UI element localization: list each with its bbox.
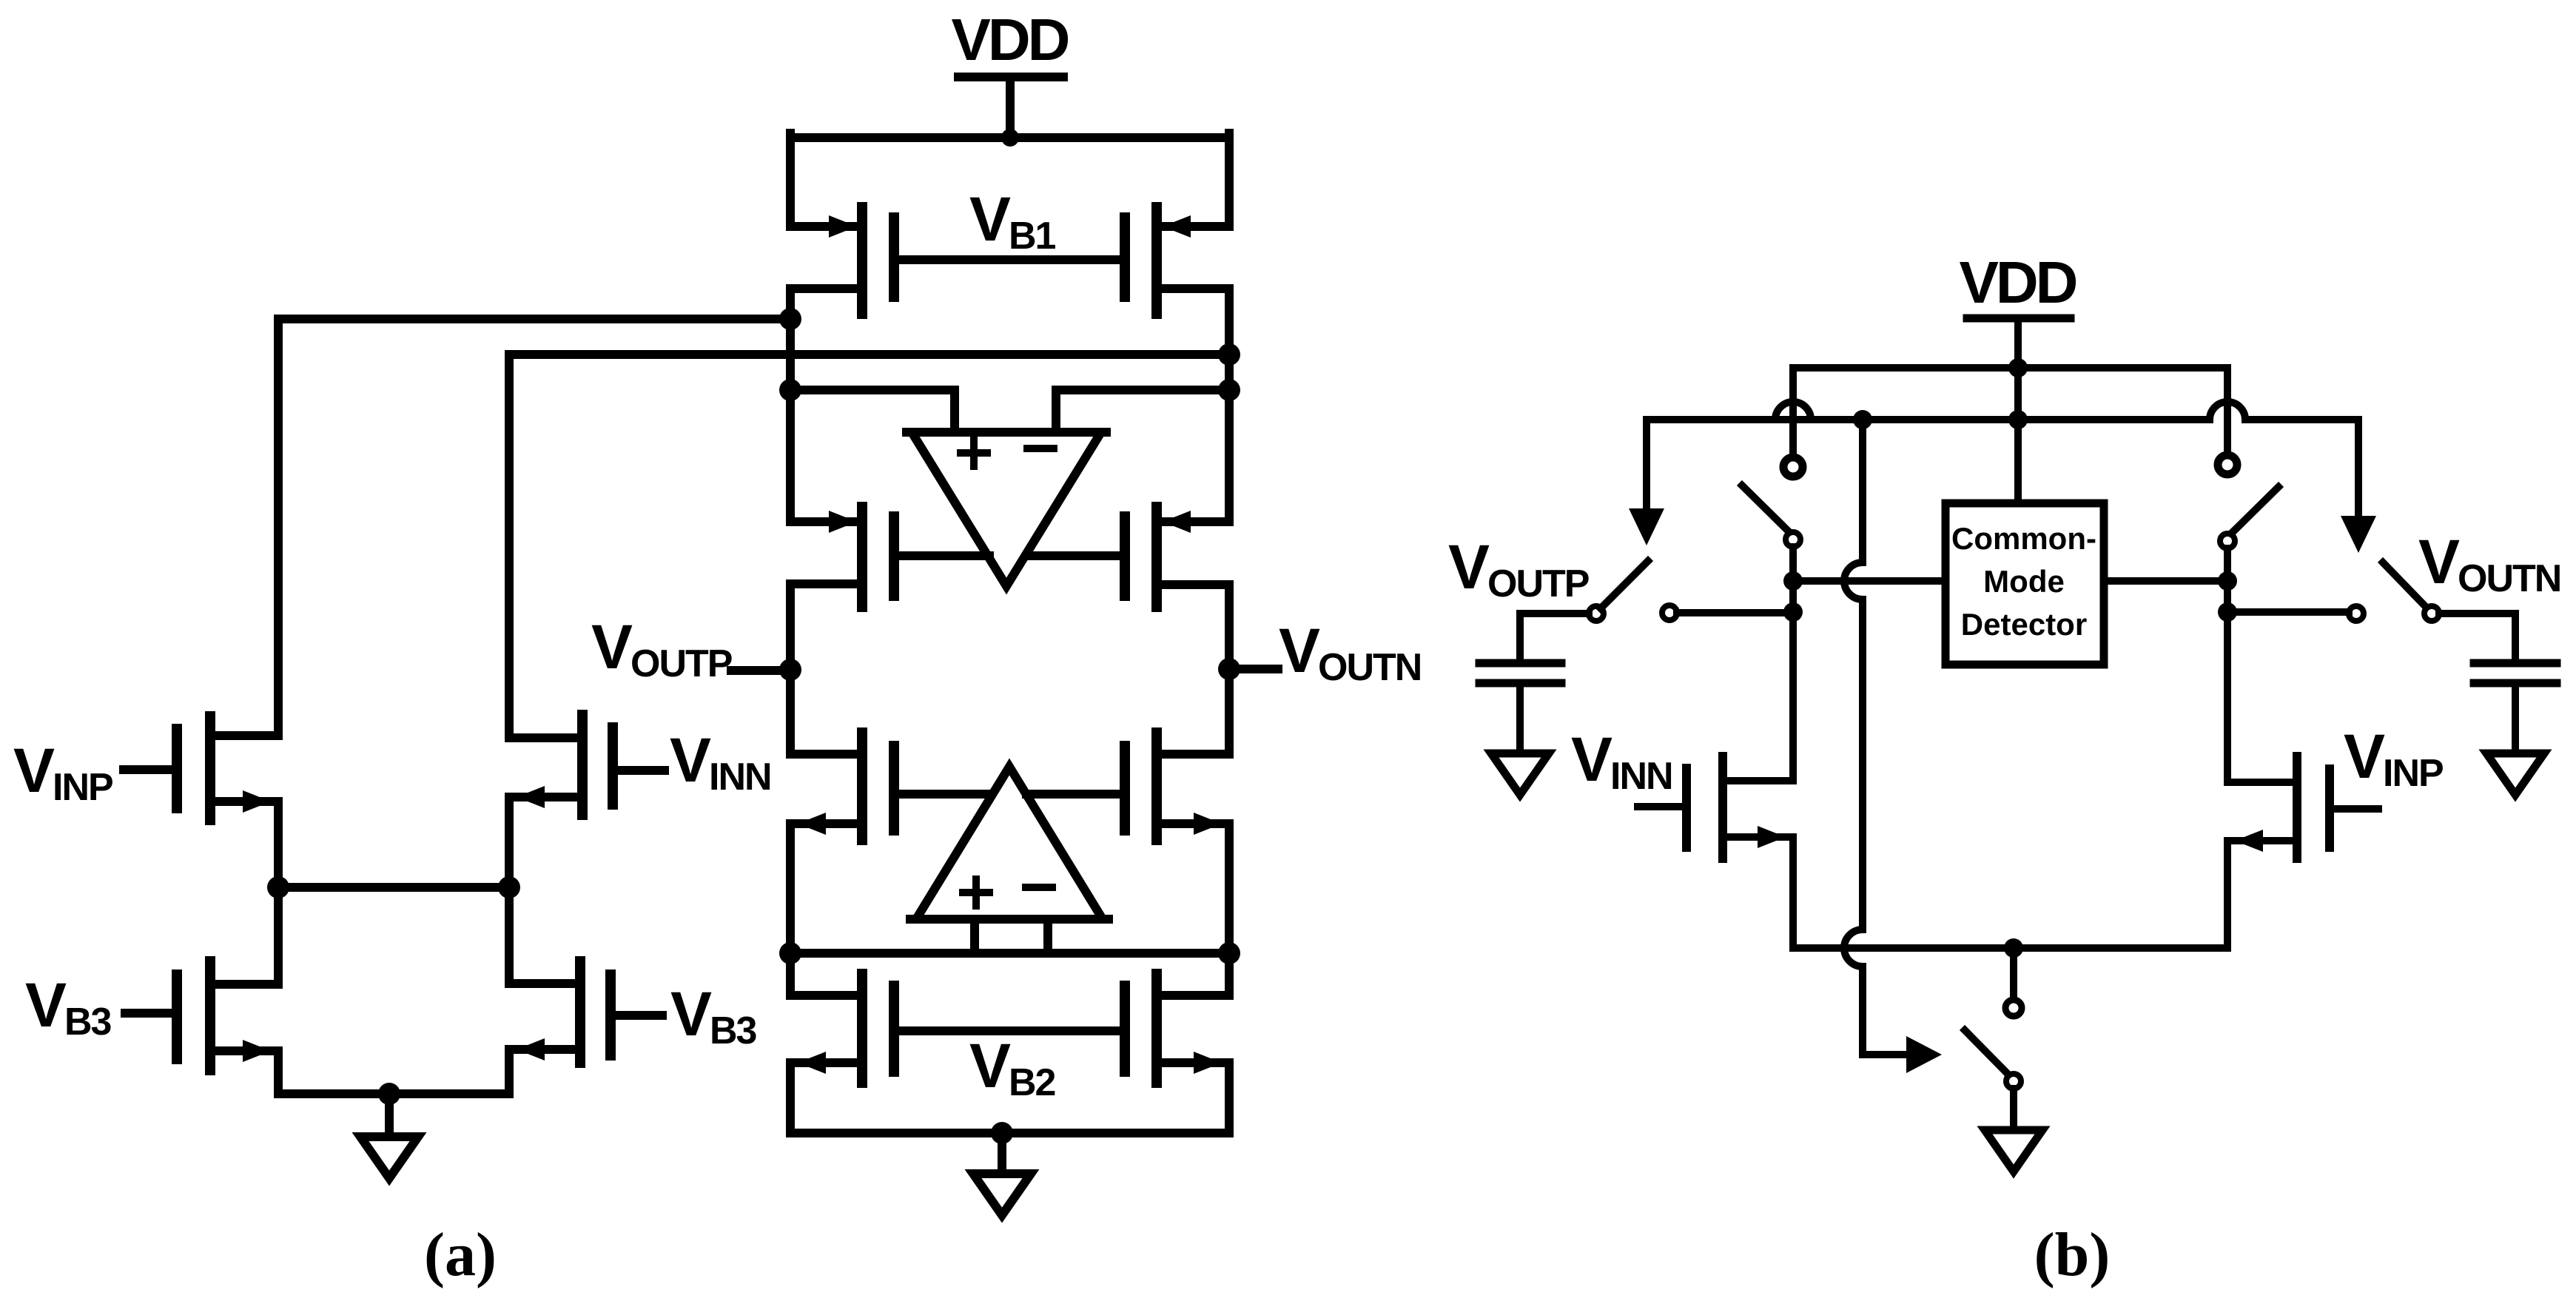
- transistor Q2 VINP channel bar: [2293, 756, 2301, 858]
- crossover hump at left drop: [1775, 402, 1811, 420]
- node dot op-amp input left: [779, 379, 801, 401]
- node VDD junction dot (a): [1001, 129, 1019, 147]
- wire ground stub input pair: [385, 1094, 394, 1137]
- wire M4 gate lead: [1028, 551, 1120, 560]
- block CMD text: [1951, 521, 2096, 642]
- transistor M11 VB3 gate bar: [172, 975, 182, 1059]
- figure label (a): [424, 1220, 497, 1289]
- switch S5 blade: [1965, 1030, 2009, 1075]
- transistor M5 channel bar: [857, 733, 867, 840]
- svg-text:V: V: [670, 979, 712, 1049]
- svg-text:B1: B1: [1009, 215, 1056, 258]
- wire Q2 gate lead: [2334, 805, 2378, 813]
- node tail dot right: [498, 876, 520, 898]
- wire feedback row 1: [278, 315, 790, 323]
- transistor M3 source arm with arrow: [790, 511, 857, 533]
- capacitor C1 plates: [1479, 663, 1561, 683]
- switch S2 pivot contact: [2220, 534, 2235, 548]
- net label VB2: [969, 1031, 1055, 1104]
- transistor M8 channel bar: [1151, 974, 1162, 1083]
- transistor M2 gate bar: [1120, 218, 1130, 297]
- svg-text:INP: INP: [2383, 752, 2443, 795]
- op-amp A2 plus sign: [963, 879, 989, 906]
- node VOUTP dot: [779, 659, 801, 681]
- transistor M11 VB3 channel bar: [205, 961, 215, 1070]
- node tail dot left: [267, 876, 289, 898]
- wire right column: M2 drain to M4 source: [1225, 289, 1234, 522]
- transistor M7 source arm with arrow: [790, 1052, 857, 1074]
- net label VINN: [670, 725, 771, 799]
- wire right column: rail to M2 source: [1225, 133, 1234, 226]
- wire rail right drop: [2224, 368, 2231, 451]
- node dot common line top: [1853, 410, 1872, 429]
- transistor Q1 VINN gate bar: [1682, 768, 1691, 847]
- switch S1 blade: [1742, 485, 1790, 533]
- wire VDD stem (a): [1006, 77, 1015, 138]
- capacitor C2 plates: [2474, 663, 2557, 683]
- ground symbol C2: [2486, 753, 2544, 795]
- wire common line upper: [1859, 420, 1866, 562]
- wire Q1 source drop: [1789, 837, 1797, 948]
- net label VB3 right: [670, 979, 757, 1052]
- op-amp A1 minus sign: [1027, 445, 1054, 452]
- transistor M2 drain arm: [1157, 284, 1229, 293]
- net label VOUTP (b): [1448, 532, 1589, 605]
- wire feedback row 2: [509, 350, 1229, 359]
- VDD supply bar (a): [958, 73, 1063, 81]
- transistor M5 source arm with arrow: [790, 813, 857, 835]
- transistor M3 drain arm: [790, 579, 862, 588]
- svg-text:Mode: Mode: [1983, 564, 2065, 599]
- transistor M9 VINP channel bar: [205, 716, 215, 820]
- switch S5 top contact: [2005, 1000, 2022, 1016]
- wire VOUTN lead: [1229, 665, 1278, 673]
- transistor M6 drain arm: [1163, 750, 1229, 759]
- svg-text:Detector: Detector: [1961, 607, 2087, 642]
- wire source row to S5: [2010, 948, 2017, 999]
- switch S4 pivot contact: [2424, 606, 2439, 621]
- transistor M3 channel bar: [857, 507, 867, 607]
- wire CMD left input: [1793, 577, 1946, 585]
- switch S1 pivot contact: [1786, 532, 1800, 547]
- transistor M8 source arm with arrow: [1163, 1052, 1229, 1074]
- wire S5 to ground: [2010, 1089, 2017, 1130]
- wire right column: M4 drain to M6 drain: [1225, 585, 1234, 754]
- wire VOUTN to capacitor: [2439, 614, 2515, 659]
- transistor M2 channel bar: [1151, 207, 1162, 314]
- transistor M9 drain arm: [210, 731, 278, 740]
- wire tail to VB3 right: [505, 887, 514, 984]
- wire op-amp A1 + input: [790, 390, 955, 432]
- wire C2 to ground: [2512, 683, 2519, 753]
- wire M5 gate lead: [898, 790, 991, 799]
- net label VOUTN: [1279, 616, 1421, 689]
- svg-text:(b): (b): [2034, 1220, 2111, 1289]
- transistor M9 VINP gate bar: [172, 729, 182, 808]
- wire C1 to ground: [1516, 683, 1524, 753]
- transistor M11 drain arm: [210, 980, 278, 989]
- transistor M6 channel bar: [1151, 733, 1162, 840]
- svg-text:OUTN: OUTN: [2458, 557, 2560, 600]
- transistor M12 drain arm: [509, 979, 580, 988]
- switch S4 fixed contact: [2349, 606, 2364, 621]
- net label VINP (b): [2344, 722, 2443, 795]
- transistor M2 source arm with arrow: [1163, 215, 1229, 238]
- transistor M8 gate bar: [1120, 986, 1130, 1072]
- VDD supply bar (b): [1967, 315, 2071, 323]
- wire left column: M1 drain to M3 source: [786, 289, 795, 522]
- wire top rail (a): [790, 133, 1229, 142]
- wire A2 + input stub: [970, 919, 979, 953]
- svg-text:OUTN: OUTN: [1318, 646, 1421, 689]
- wire A2 - input stub: [1043, 919, 1052, 953]
- svg-text:INN: INN: [1610, 755, 1672, 798]
- clock arrow VOUTN switch: [2341, 420, 2376, 553]
- transistor M7 drain arm: [790, 991, 857, 1000]
- wire feedback row 2 left drop: [505, 354, 514, 738]
- node dot right wire row: [2218, 571, 2237, 591]
- power label VDD (b): [1960, 249, 2076, 315]
- transistor Q1 drain arm: [1727, 777, 1793, 784]
- node dot source row: [2004, 938, 2023, 958]
- wire S3 to left switch row: [1677, 609, 1793, 616]
- wire S2 to VINP drain: [2224, 548, 2231, 782]
- transistor M10 source arm with arrow: [509, 786, 582, 808]
- transistor M3 gate bar: [889, 517, 899, 596]
- svg-text:B3: B3: [710, 1009, 757, 1052]
- wire upper row (b) left segment: [1647, 416, 2210, 423]
- svg-text:V: V: [969, 184, 1011, 254]
- figure label (b): [2034, 1220, 2111, 1289]
- wire VB1 gate line: [898, 255, 1120, 264]
- op-amp A1 body: [907, 432, 1106, 586]
- ground symbol S5: [1985, 1130, 2042, 1172]
- transistor M1 drain arm: [790, 284, 862, 293]
- switch S2 blade: [2230, 487, 2279, 534]
- svg-text:OUTP: OUTP: [630, 642, 732, 685]
- wire tail node: [278, 883, 509, 892]
- wire source row (b): [1793, 944, 2227, 952]
- wire VOUTP lead: [731, 666, 790, 675]
- op-amp A2 body: [910, 767, 1109, 919]
- transistor M12 VB3 gate bar: [605, 975, 616, 1055]
- wire tail to VB3 left: [274, 887, 283, 984]
- transistor M1 channel bar: [857, 207, 867, 314]
- svg-text:V: V: [13, 736, 55, 805]
- wire M9 source drop: [274, 801, 283, 887]
- wire VINP gate lead: [124, 765, 172, 774]
- transistor M4 drain arm: [1157, 580, 1229, 589]
- wire lower sense row: [790, 949, 1229, 958]
- wire M10 gate lead: [617, 766, 665, 775]
- node dot row2 at right column: [1218, 343, 1240, 366]
- ground symbol (a) center: [973, 1174, 1031, 1215]
- op-amp A2 minus sign: [1026, 884, 1052, 891]
- wire S1 to VINN drain: [1789, 547, 1797, 781]
- switch S3 blade: [1601, 561, 1648, 608]
- svg-text:B3: B3: [64, 1001, 112, 1043]
- transistor M8 drain arm: [1163, 991, 1229, 1000]
- wire VOUTP to capacitor: [1520, 614, 1589, 659]
- svg-text:V: V: [1448, 532, 1490, 602]
- wire M11 source drop: [274, 1051, 283, 1094]
- clock arrow bottom switch: [1906, 1036, 1942, 1073]
- transistor M12 source arm with arrow: [509, 1038, 580, 1061]
- wire VB3 left gate lead: [125, 1009, 172, 1018]
- node dot left wire row: [1783, 571, 1803, 591]
- wire Q2 source drop: [2224, 841, 2231, 948]
- node ground dot input pair: [378, 1083, 400, 1105]
- svg-text:VDD: VDD: [952, 7, 1069, 73]
- svg-text:VDD: VDD: [1960, 249, 2076, 315]
- switch S4 blade: [2383, 562, 2427, 608]
- wire left column: rail to M1 source: [786, 133, 795, 226]
- transistor M1 source arm with arrow: [790, 215, 857, 238]
- wire bottom rail (a): [790, 1129, 1229, 1137]
- transistor M10 drain arm: [509, 733, 582, 742]
- wire VDD stem (b): [2014, 318, 2022, 500]
- switch S3 fixed contact: [1662, 605, 1677, 620]
- wire S4 to right switch row: [2227, 608, 2349, 616]
- wire op-amp A1 - input: [1056, 390, 1229, 432]
- wire VB2 gate line: [898, 1026, 1120, 1035]
- transistor M7 gate bar: [889, 986, 899, 1072]
- svg-text:OUTP: OUTP: [1487, 562, 1589, 605]
- clock arrow VOUTP switch: [1629, 420, 1664, 545]
- wire feedback row 1 left drop: [274, 319, 283, 736]
- transistor M9 source arm with arrow: [210, 790, 278, 813]
- svg-text:(a): (a): [424, 1220, 497, 1289]
- wire M12 source drop: [505, 1049, 514, 1094]
- transistor M6 source arm with arrow: [1163, 813, 1229, 835]
- svg-text:V: V: [969, 1031, 1011, 1100]
- transistor Q2 drain arm: [2227, 779, 2293, 786]
- svg-text:Common-: Common-: [1951, 521, 2096, 556]
- crossover arc over source row: [1844, 930, 1863, 967]
- wire CMD right input: [2104, 577, 2227, 585]
- switch S5 pivot contact: [2006, 1074, 2021, 1089]
- transistor M1 gate bar: [889, 218, 899, 297]
- wire M12 gate lead: [615, 1011, 662, 1020]
- wire M10 source drop: [505, 797, 514, 887]
- wire upper row (b) right segment: [2245, 416, 2358, 423]
- transistor M12 VB3 channel bar: [575, 961, 585, 1063]
- op-amp A1 plus sign: [961, 440, 987, 466]
- wire top rail (b): [1793, 364, 2227, 372]
- wire rail left drop: [1789, 368, 1797, 454]
- crossover arc over left input wire: [1844, 562, 1863, 599]
- wire ground stub (a): [998, 1133, 1006, 1174]
- node ground dot (a): [991, 1122, 1013, 1144]
- wire input pair bottom rail: [278, 1089, 509, 1098]
- svg-text:INP: INP: [53, 766, 112, 809]
- wire left column: M7 source to bottom rail: [786, 1063, 795, 1133]
- svg-text:V: V: [591, 612, 633, 682]
- node dot lower row right: [1218, 942, 1240, 964]
- net label VOUTP: [591, 612, 732, 685]
- wire M3 gate lead: [898, 551, 989, 560]
- transistor M4 channel bar: [1151, 507, 1162, 607]
- node VDD rail dot (b): [2008, 358, 2028, 377]
- transistor M10 VINN channel bar: [577, 715, 588, 815]
- block Common-Mode Detector box: [1946, 503, 2104, 665]
- wire clock arrow lead bottom: [1863, 1051, 1906, 1058]
- node dot op-amp input right: [1218, 379, 1240, 401]
- transistor M4 source arm with arrow: [1163, 511, 1229, 533]
- svg-text:B2: B2: [1009, 1061, 1055, 1104]
- wire right column: M8 source to bottom rail: [1225, 1063, 1234, 1133]
- node stem sense-row dot (b): [2008, 410, 2028, 429]
- transistor M6 gate bar: [1120, 746, 1130, 830]
- transistor Q1 source arm with arrow: [1727, 826, 1793, 848]
- crossover hump at right drop: [2210, 402, 2245, 420]
- switch S2 top contact: [2218, 455, 2237, 474]
- transistor Q1 VINN channel bar: [1718, 756, 1727, 858]
- wire M6 gate lead: [1026, 790, 1120, 799]
- node dot row1 at left column: [779, 308, 801, 330]
- transistor M4 gate bar: [1120, 517, 1130, 596]
- svg-text:INN: INN: [709, 756, 771, 799]
- wire left column: M5 source to M7 drain: [786, 824, 795, 995]
- wire right column: M6 source to M8 drain: [1225, 824, 1234, 995]
- net label VINN (b): [1571, 725, 1672, 798]
- transistor M7 channel bar: [857, 974, 867, 1083]
- svg-text:V: V: [2344, 722, 2385, 791]
- transistor M10 VINN gate bar: [608, 727, 618, 804]
- wire common line middle: [1859, 599, 1866, 930]
- net label VB1: [969, 184, 1056, 258]
- node dot right switch row: [2218, 602, 2237, 622]
- wire Q1 gate lead: [1638, 803, 1682, 810]
- svg-text:V: V: [1571, 725, 1612, 794]
- net label VB3 left: [25, 970, 112, 1043]
- node VOUTN dot: [1218, 658, 1240, 680]
- transistor M5 gate bar: [889, 746, 899, 830]
- svg-text:V: V: [670, 725, 711, 795]
- switch S3 pivot contact: [1589, 606, 1604, 621]
- transistor M11 source arm with arrow: [210, 1040, 278, 1062]
- wire common line lower: [1859, 967, 1866, 1055]
- net label VOUTN (b): [2418, 527, 2560, 600]
- net label VINP: [13, 736, 112, 809]
- switch S1 top contact: [1783, 457, 1803, 477]
- node dot left switch row: [1783, 602, 1803, 622]
- transistor Q2 VINP gate bar: [2325, 769, 2334, 847]
- node dot lower row left: [779, 942, 801, 964]
- ground symbol input pair: [360, 1137, 418, 1178]
- svg-text:V: V: [2418, 527, 2460, 596]
- transistor Q2 source arm with arrow: [2227, 830, 2293, 852]
- transistor M5 drain arm: [790, 750, 857, 759]
- ground symbol C1: [1491, 753, 1549, 795]
- svg-text:V: V: [25, 970, 67, 1040]
- svg-text:V: V: [1279, 616, 1320, 685]
- wire left column: M3 drain to M5 drain: [786, 584, 795, 754]
- power label VDD (a): [952, 7, 1069, 73]
